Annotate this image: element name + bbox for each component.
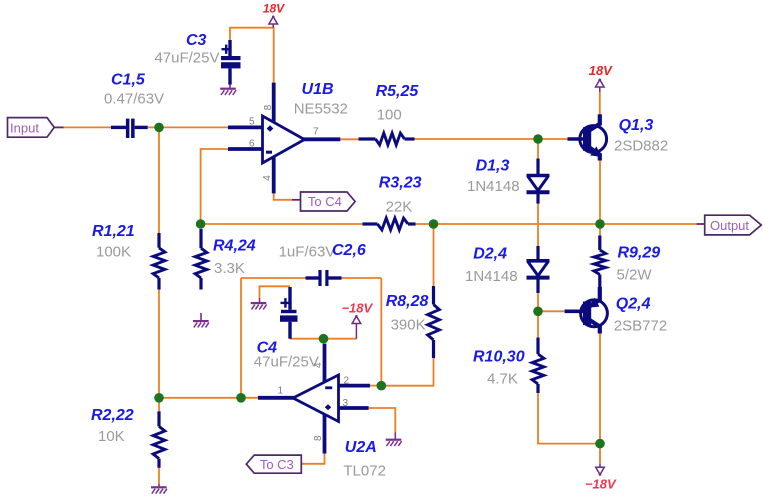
- svg-text:Input: Input: [10, 120, 39, 135]
- wire output port lead: [697, 223, 705, 225]
- wire node D to -18V: [599, 444, 601, 464]
- junction node A: [154, 123, 164, 133]
- svg-text:1uF/63V: 1uF/63V: [279, 243, 336, 260]
- wire R1 to node B: [158, 290, 160, 398]
- power +18V top-left: [263, 1, 285, 27]
- wire R2 to ground: [158, 468, 160, 484]
- junction U2A pin4: [319, 334, 329, 344]
- junction U2A out: [236, 393, 246, 403]
- svg-text:−18V: −18V: [585, 476, 617, 491]
- ground under U2A pin3: [386, 432, 402, 446]
- resistor R8,28: [428, 286, 440, 358]
- junction feedback-rail: [196, 219, 206, 229]
- ground under C3: [220, 84, 236, 95]
- svg-text:R8,28: R8,28: [386, 293, 429, 310]
- svg-text:6: 6: [249, 138, 255, 149]
- svg-text:NE5532: NE5532: [294, 101, 348, 118]
- junction output node: [595, 219, 605, 229]
- wire node A down to R1: [158, 127, 160, 233]
- svg-text:1: 1: [278, 386, 284, 397]
- junction node D: [595, 439, 605, 449]
- diode D1,3 labels: [467, 158, 520, 196]
- svg-text:5/2W: 5/2W: [617, 266, 653, 283]
- svg-text:R4,24: R4,24: [213, 238, 256, 255]
- wire U1B out to R5: [340, 138, 358, 140]
- wire R5 to Q1 base: [415, 138, 568, 140]
- ground under R2: [151, 484, 167, 494]
- resistor R3,23: [363, 218, 416, 230]
- svg-text:22K: 22K: [386, 199, 413, 216]
- capacitor C4: [280, 287, 298, 339]
- junction U2A pin2: [377, 381, 387, 391]
- wire pin8 to ToC3 port: [302, 454, 325, 464]
- svg-text:100K: 100K: [96, 244, 131, 261]
- svg-text:To C4: To C4: [308, 194, 342, 209]
- wire U1B pin8 supply: [230, 28, 274, 83]
- svg-text:C3: C3: [186, 32, 207, 49]
- power -18V mid: [341, 300, 373, 338]
- wire node B to R2: [158, 398, 160, 412]
- wire Q2 collector down: [599, 334, 601, 444]
- wire feedback pin6: [201, 149, 228, 224]
- svg-text:47uF/25V: 47uF/25V: [254, 354, 319, 371]
- wire pin2 junction: [370, 385, 381, 387]
- resistor R4,24: [195, 229, 207, 290]
- capacitor C1,5: [111, 119, 148, 138]
- resistor R1,21 labels: [92, 223, 135, 261]
- wire C4 top: [260, 286, 291, 298]
- diode D1,3: [527, 159, 550, 204]
- ground under R4: [193, 313, 209, 327]
- wire Q1 emitter down: [599, 161, 601, 225]
- svg-text:4: 4: [313, 362, 324, 368]
- resistor R1,21: [153, 233, 165, 290]
- resistor R4,24 labels: [213, 238, 256, 278]
- svg-text:R3,23: R3,23: [379, 175, 422, 192]
- transistor Q2,4: [565, 287, 608, 334]
- transistor Q2,4 labels: [614, 296, 667, 335]
- svg-text:Q1,3: Q1,3: [619, 117, 654, 134]
- resistor R2,22: [153, 411, 165, 467]
- ground left of C4: [251, 298, 267, 309]
- svg-text:C1,5: C1,5: [111, 72, 146, 89]
- transistor Q1,3 labels: [614, 117, 668, 155]
- svg-text:2SB772: 2SB772: [614, 318, 667, 335]
- wire D2 to node C: [537, 293, 539, 311]
- op-amp U2A: [258, 344, 370, 454]
- wire C1 to U1B pin5: [148, 126, 228, 128]
- port Input: [8, 118, 55, 138]
- svg-text:1N4148: 1N4148: [465, 268, 518, 285]
- capacitor C2,6: [306, 270, 342, 286]
- svg-text:R2,22: R2,22: [91, 407, 134, 424]
- resistor R10,30: [532, 338, 544, 394]
- power -18V bottom: [585, 464, 617, 492]
- capacitor C3: [221, 40, 241, 85]
- wire C4 bottom to -18V: [290, 338, 356, 340]
- svg-text:U1B: U1B: [302, 81, 334, 98]
- wire pin3 to ground: [369, 408, 396, 433]
- svg-text:D1,3: D1,3: [476, 158, 510, 175]
- svg-text:4.7K: 4.7K: [487, 371, 518, 388]
- wire 18V to Q1 collector: [599, 92, 601, 114]
- svg-text:0.47/63V: 0.47/63V: [104, 91, 164, 108]
- wire loop left vertical: [240, 278, 242, 398]
- wire C2 right: [342, 277, 382, 279]
- port To C4: [301, 192, 356, 211]
- svg-text:Output: Output: [710, 218, 749, 233]
- op-amp U1B pin numbers: [249, 104, 319, 180]
- capacitor C2,6 labels: [279, 242, 366, 260]
- svg-text:R1,21: R1,21: [92, 223, 135, 240]
- wire junction to R8 corner: [381, 358, 433, 386]
- transistor Q1,3: [568, 114, 607, 160]
- wire D1 to D2 crossing rail: [537, 204, 539, 246]
- svg-text:D2,4: D2,4: [473, 246, 507, 263]
- svg-text:C2,6: C2,6: [332, 242, 366, 259]
- op-amp U1B labels: [294, 81, 348, 118]
- op-amp U1B: [228, 83, 340, 194]
- resistor R8,28 labels: [386, 293, 429, 334]
- wire rail left: [201, 223, 363, 225]
- diode D2,4: [527, 246, 550, 293]
- op-amp U2A pin numbers: [278, 362, 350, 441]
- wire R8 top to rail: [433, 224, 435, 286]
- capacitor C1,5 labels: [104, 72, 164, 108]
- resistor R9,29: [594, 236, 606, 288]
- svg-text:R5,25: R5,25: [376, 83, 420, 100]
- svg-text:To C3: To C3: [260, 457, 294, 472]
- svg-text:390K: 390K: [391, 317, 426, 334]
- junction R8-rail: [429, 219, 439, 229]
- svg-text:2: 2: [344, 375, 350, 386]
- wire R10 bottom corner: [538, 393, 600, 444]
- resistor R5,25: [359, 133, 415, 145]
- wire node C to R10: [537, 311, 539, 337]
- svg-text:TL072: TL072: [343, 463, 386, 480]
- svg-text:1N4148: 1N4148: [467, 178, 520, 195]
- svg-text:2SD882: 2SD882: [614, 138, 668, 155]
- svg-text:U2A: U2A: [345, 439, 377, 456]
- wire rail right: [416, 223, 697, 225]
- svg-text:100: 100: [377, 107, 402, 124]
- capacitor C3 labels: [154, 32, 219, 67]
- svg-text:8: 8: [263, 104, 274, 110]
- svg-text:18V: 18V: [263, 1, 285, 15]
- svg-text:Q2,4: Q2,4: [616, 296, 651, 313]
- svg-text:18V: 18V: [589, 63, 613, 78]
- svg-text:R9,29: R9,29: [618, 245, 661, 262]
- resistor R9,29 labels: [617, 245, 661, 284]
- port Output: [705, 215, 762, 235]
- svg-text:4: 4: [262, 175, 273, 181]
- svg-text:3.3K: 3.3K: [214, 260, 245, 277]
- svg-text:R10,30: R10,30: [473, 349, 525, 366]
- svg-text:8: 8: [313, 435, 324, 441]
- wire D1 top stub: [537, 139, 539, 159]
- svg-text:47uF/25V: 47uF/25V: [154, 50, 219, 67]
- svg-text:3: 3: [343, 398, 349, 409]
- svg-text:10K: 10K: [98, 428, 125, 445]
- wire pin4 to ToC4 port: [274, 193, 292, 199]
- svg-text:5: 5: [249, 117, 255, 128]
- wire input to C1: [64, 126, 111, 128]
- junction node C: [533, 307, 543, 317]
- wire rail to R9: [599, 224, 601, 236]
- op-amp U2A labels: [343, 439, 386, 480]
- resistor R10,30 labels: [473, 349, 525, 388]
- wire node C to Q2 base: [538, 310, 565, 312]
- junction node B: [154, 393, 164, 403]
- port To C3: [246, 455, 301, 473]
- capacitor C4 labels: [254, 340, 319, 371]
- junction D1 top: [533, 134, 543, 144]
- resistor R3,23 labels: [379, 175, 422, 216]
- resistor R5,25 labels: [376, 83, 420, 124]
- diode D2,4 labels: [465, 246, 518, 286]
- resistor R2,22 labels: [91, 407, 134, 445]
- svg-text:7: 7: [313, 127, 319, 138]
- wire input port lead: [54, 126, 64, 128]
- wire C2 left: [241, 277, 306, 279]
- wire loop right vertical: [380, 278, 382, 386]
- power +18V right: [589, 63, 613, 92]
- wire ToC4 port lead: [292, 199, 301, 201]
- svg-text:−18V: −18V: [341, 300, 373, 315]
- wire node B to U2A pin1: [159, 397, 258, 399]
